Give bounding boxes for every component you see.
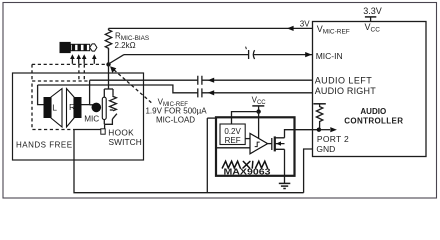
wire V_MIC-REF to controller — [109, 27, 313, 29]
svg-text:L: L — [52, 102, 57, 112]
node mic bias junction — [106, 62, 110, 66]
svg-text:MIC: MIC — [84, 115, 99, 124]
VCC T-bar MAX9063 — [252, 105, 264, 107]
wire VCC to REF — [232, 112, 259, 124]
wire diagonal node to MIC-IN line — [109, 55, 125, 64]
capacitor C2 (AUDIO LEFT) — [198, 76, 202, 85]
resistor hook branch — [112, 89, 114, 96]
wire AUDIO RIGHT to controller — [202, 92, 313, 94]
wire AUDIO RIGHT from L speaker — [38, 85, 198, 93]
svg-text:AUDIO: AUDIO — [360, 107, 386, 116]
arrow AUDIO LEFT pointing left — [208, 78, 215, 83]
svg-text:MIC-LOAD: MIC-LOAD — [156, 115, 195, 124]
svg-text:HANDS FREE: HANDS FREE — [16, 140, 73, 149]
callout dashed arrow to node — [114, 70, 152, 103]
svg-text:SWITCH: SWITCH — [109, 137, 142, 147]
VCC T-bar 3.3V — [365, 16, 376, 18]
speaker L — [44, 89, 63, 127]
svg-text:MAX9063: MAX9063 — [224, 168, 272, 177]
plug contact arrow 4 — [92, 54, 97, 64]
svg-text:1.9V FOR 500µA: 1.9V FOR 500µA — [145, 107, 207, 116]
resistor pull-up PORT2 — [313, 103, 325, 105]
wire MAX9063 left vertical — [206, 118, 208, 193]
svg-text:R: R — [69, 102, 75, 112]
wire drain to PORT2 — [285, 130, 319, 138]
svg-text:AUDIO LEFT: AUDIO LEFT — [315, 76, 373, 86]
svg-text:REF: REF — [225, 136, 241, 145]
wire comparator lower input — [216, 147, 250, 149]
dashed wire ring2 vertical — [83, 64, 85, 81]
mic capsule branch — [104, 89, 112, 124]
wire REF to comparator — [245, 138, 250, 140]
node PORT2 junction — [317, 128, 321, 132]
wire R speaker feed — [82, 80, 90, 104]
plug contact arrow 1 — [70, 54, 75, 64]
wire GND pin — [304, 149, 313, 193]
wire AUDIO LEFT to controller — [202, 79, 313, 81]
microphone MIC — [92, 97, 107, 119]
wire comparator output to gate — [268, 143, 272, 145]
wire AUDIO LEFT from R speaker — [90, 79, 198, 81]
arrow into MIC-IN — [305, 52, 312, 57]
hysteresis symbol — [255, 142, 260, 147]
svg-text:CONTROLLER: CONTROLLER — [344, 116, 403, 125]
wire node vertical — [108, 49, 110, 89]
wire L speaker feed — [38, 85, 44, 105]
wire MIC-IN line — [124, 54, 313, 56]
node VCC junction — [256, 109, 260, 113]
resistor R_MIC-BIAS — [105, 28, 111, 49]
svg-text:PORT 2: PORT 2 — [317, 134, 349, 144]
hands-free enclosure box — [13, 73, 144, 160]
audio controller box U2 — [313, 22, 427, 157]
wire VCC to comparator — [258, 112, 260, 139]
dashed wire segment left vertical — [31, 64, 33, 81]
svg-text:MIC-IN: MIC-IN — [316, 51, 343, 61]
ground symbol — [279, 183, 291, 188]
svg-text:AUDIO RIGHT: AUDIO RIGHT — [315, 86, 377, 96]
plug contact arrow 3 — [82, 54, 87, 64]
plug contact arrow 2 — [76, 54, 81, 64]
svg-text:3V: 3V — [300, 19, 310, 28]
wire common down to ground bus — [74, 130, 304, 193]
hook switch branch tee — [104, 88, 113, 90]
MAX9063 input stub — [207, 117, 216, 119]
audio jack plug P1 — [60, 42, 97, 53]
svg-text:3.3V: 3.3V — [363, 6, 382, 16]
svg-text:GND: GND — [316, 144, 335, 154]
wire to microphone — [90, 104, 94, 106]
capacitor C1 (MIC-IN) — [246, 47, 255, 59]
comparator U1A — [250, 133, 268, 153]
dashed wire from plug to node — [32, 63, 107, 65]
label MAXIM logo — [222, 161, 267, 168]
wire headset common — [74, 129, 101, 131]
arrow PORT2 — [319, 129, 330, 131]
svg-text:0.2V: 0.2V — [224, 127, 241, 136]
headset dashed box — [32, 81, 88, 130]
resistor R hook — [110, 96, 117, 111]
wire source to ground — [284, 149, 286, 183]
arrow AUDIO RIGHT pointing left — [208, 90, 215, 95]
dashed wire ring1 vertical — [78, 64, 80, 81]
arrow 3V pointing left — [287, 26, 294, 31]
0.2V REF box — [220, 124, 245, 145]
svg-text:2.2kΩ: 2.2kΩ — [115, 41, 136, 50]
hook switch lever — [110, 110, 117, 119]
MAX9063 box U1 — [216, 117, 295, 176]
capacitor C3 (AUDIO RIGHT) — [198, 88, 202, 97]
speaker R — [67, 89, 82, 127]
hook switch lower contact — [104, 124, 106, 129]
transistor Q1 MOSFET — [272, 136, 285, 151]
